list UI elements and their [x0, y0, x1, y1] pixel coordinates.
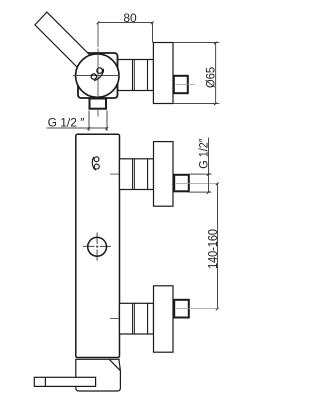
lever handle [35, 12, 95, 73]
dimension 80: right tick [151, 21, 154, 24]
bottom wall pipe centerline extension [176, 308, 218, 310]
valve body square (top view) [78, 53, 118, 98]
valve circle (top view) [76, 54, 119, 97]
nipple thread line b (top view) [133, 60, 135, 91]
dimension Ø65: top tick [214, 42, 217, 45]
spout aerator ring line [44, 377, 46, 386]
faucet body bar (front view) [76, 134, 120, 357]
bottom nipple thread line a [132, 303, 134, 334]
bottom wall pipe square (front view) [174, 300, 189, 318]
top union nipple (front view) [120, 159, 154, 190]
dimension G1/2 front: line [208, 138, 210, 193]
svg-text:G 1/2″: G 1/2″ [198, 138, 211, 168]
brand logo in valve circle [90, 66, 106, 82]
dimension G1/2 top view: right extension [106, 111, 108, 132]
top wall flange (front view) [154, 142, 174, 207]
dimension G1/2 top view: line [47, 127, 108, 129]
svg-text:140-160: 140-160 [206, 229, 220, 269]
top nipple thread line b [133, 159, 135, 190]
svg-text:80: 80 [123, 11, 137, 25]
pipe centerline (top view small square) [176, 84, 196, 86]
dimension G1/2 top view: left extension [88, 111, 90, 132]
dimension 80: line [98, 22, 152, 24]
top wall pipe square (front view) [174, 175, 189, 192]
wall pipe square (top view) [174, 76, 188, 93]
dimension Ø65: top extension [173, 42, 219, 44]
bottom nipple thread line b [133, 303, 135, 334]
dimension G1/2 top view: left tick [87, 127, 90, 130]
nipple ring line (top view) [147, 60, 149, 91]
dimension 140-160: top tick [216, 183, 219, 186]
nipple thread line a (top view) [132, 60, 134, 91]
top wall pipe centerline extension [176, 182, 218, 184]
top nipple thread line a [132, 159, 134, 190]
crosshair vertical (redrawn over circle) [97, 54, 99, 98]
dimension G1/2 front: bottom extension [189, 191, 212, 193]
bottom wall flange (front view) [154, 286, 174, 352]
dimension Ø65: bottom extension [173, 103, 219, 105]
dimension Ø65: line [215, 43, 217, 104]
spout body chamfer line [109, 359, 120, 370]
spout outlet tube [34, 377, 95, 386]
wire: valve vertical centerline [97, 23, 99, 117]
top nipple ring line [147, 159, 149, 190]
spout body (bottom) [76, 359, 121, 391]
wall flange (top view) [153, 43, 173, 104]
bottom nipple ring line [147, 303, 149, 334]
bottom union nipple (front view) [120, 303, 154, 334]
dimension 80: left extension tick [97, 21, 100, 24]
dimension G1/2 front: bottom tick [207, 191, 210, 194]
svg-text:Ø65: Ø65 [205, 67, 217, 88]
dimension 140-160: bottom tick [216, 308, 219, 311]
dimension G1/2 top view: right tick [105, 127, 108, 130]
brand logo on bar [92, 157, 99, 170]
screw boss crosshair horizontal (front view) [83, 245, 111, 247]
wire: valve horizontal centerline [73, 75, 163, 77]
screw boss circle (front view) [88, 237, 107, 256]
dimension G1/2 front: top tick [207, 173, 210, 176]
dimension 80: right extension line [152, 23, 154, 43]
dimension Ø65: bottom tick [214, 103, 217, 106]
bottom outlet centerline (front view) [110, 318, 163, 320]
dimension G1/2 front: top extension [189, 173, 212, 175]
crosshair horizontal (redrawn over circle) [76, 75, 120, 77]
top outlet centerline (front view) [110, 173, 163, 175]
union nipple (top view) [118, 60, 154, 91]
svg-text:G 1/2 ″: G 1/2 ″ [48, 115, 86, 129]
dimension 140-160: line [217, 183, 219, 308]
screw boss crosshair vertical (front view) [96, 233, 98, 261]
outlet stub (top view, below valve) [90, 99, 107, 109]
